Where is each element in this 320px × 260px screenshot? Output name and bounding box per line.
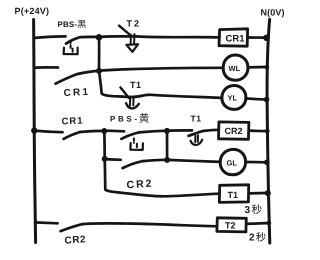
wire coil CR1 to rail N [248, 36, 267, 39]
relay contact CR1 NO blade rung4 [64, 132, 80, 139]
svg-text:WL: WL [229, 64, 241, 73]
relay contact CR2 NO blade rung7 [61, 224, 83, 231]
timer T1 NO contact blade [189, 131, 203, 136]
wire T2 contact to coil CR1 [136, 36, 220, 37]
timer T2 delay arrow [130, 35, 132, 45]
relay coil CR2 [219, 122, 249, 139]
svg-text:PBS-: PBS- [58, 20, 78, 29]
lamp GL [220, 149, 245, 174]
svg-text:CR2: CR2 [225, 126, 243, 136]
svg-text:T2: T2 [225, 221, 236, 231]
svg-text:N(0V): N(0V) [261, 8, 285, 18]
svg-text:CR1: CR1 [61, 115, 83, 127]
svg-text:CR1: CR1 [226, 34, 246, 45]
relay contact CR1 NO blade (seal-in) [56, 74, 78, 84]
wire PBS-yellow to node D [139, 131, 167, 133]
junction node B [96, 68, 102, 74]
timer T1 delay arrow [129, 98, 131, 106]
pushbutton PBS-yellow NO contact blade [121, 132, 139, 139]
svg-text:3: 3 [245, 205, 251, 216]
wire rung7 rail to CR2 contact [35, 221, 58, 225]
timer coil T2 [217, 218, 246, 232]
junction rail N rung7 [266, 221, 271, 226]
wire CR1 contact to node B [78, 71, 99, 74]
wire CR2 contact to coil T2 [83, 223, 217, 226]
wire coil T2 to rail N [246, 222, 269, 226]
junction rail N rung6 [265, 190, 271, 196]
wire node B to lamp WL [99, 68, 223, 71]
wire node F to lamp GL [167, 160, 220, 162]
wire node E to CR2 contact [105, 158, 121, 161]
wire left power rail P [34, 20, 36, 243]
wire CR2 contact to node F [143, 160, 167, 161]
svg-text:CR1: CR1 [63, 87, 88, 99]
wire node A to T2 contact [99, 35, 136, 38]
wire under slash [121, 95, 131, 98]
wire vertical node B down to rung3 [99, 71, 102, 93]
relay coil CR1 [219, 29, 248, 46]
pushbutton PBS-yellow actuator [133, 138, 135, 143]
junction node E [102, 156, 108, 162]
wire vertical node A to node B [98, 37, 101, 71]
junction rail P rung4 [31, 127, 37, 133]
wire rung4 rail to CR1 contact [34, 131, 62, 133]
wire T1 contact to coil CR2 [203, 130, 219, 131]
wire coil T1 to rail N [249, 192, 268, 195]
lamp YL [222, 85, 246, 109]
svg-text:GL: GL [227, 158, 238, 167]
wire rung2 rail to CR1 contact [34, 66, 58, 69]
wire lamp YL to rail N [246, 98, 267, 99]
pushbutton PBS-black NO contact blade [66, 37, 80, 43]
svg-text:CR2: CR2 [64, 234, 86, 246]
svg-text:T1: T1 [228, 190, 239, 200]
junction rail N rung1 [263, 35, 269, 41]
wire rung1 rail to PBS contact [34, 36, 66, 38]
wire lamp GL to rail N [246, 161, 267, 164]
wire CR1 contact to node C [80, 131, 104, 132]
junction rail N rung5 [264, 160, 270, 166]
timer T1 NC contact slash [120, 87, 128, 98]
junction rail N rung3 [264, 97, 270, 103]
wire T1 contact to lamp YL [131, 95, 222, 98]
lamp WL [223, 55, 248, 80]
junction node F [164, 157, 170, 163]
wire vertical node C to node E [103, 131, 106, 159]
timer coil T1 [219, 185, 248, 203]
wire node C to PBS-yellow contact [104, 129, 124, 132]
timer T2 NC contact slash [119, 26, 131, 36]
wire coil CR2 to rail N [249, 129, 267, 132]
wire vertical node E down to rung6 corner [103, 159, 106, 190]
svg-text:YL: YL [228, 94, 238, 103]
svg-text:CR2: CR2 [126, 178, 152, 192]
wire rung3 corner to T1 contact [102, 93, 121, 96]
timer T1 on-delay symbol [194, 136, 196, 143]
wire node D to T1 contact [167, 129, 192, 132]
junction node D [164, 128, 170, 134]
svg-text:T1: T1 [130, 80, 141, 90]
junction rail N rung2 [264, 65, 269, 70]
wire lamp WL to rail N [248, 66, 267, 69]
wire PBS contact to node A [80, 35, 99, 38]
svg-text:2: 2 [249, 232, 255, 243]
svg-text:PBS-: PBS- [110, 115, 137, 124]
relay contact CR2 NO blade (seal-in) [123, 161, 143, 168]
pushbutton PBS-black actuator [70, 41, 72, 49]
wire vertical node D to node F [166, 131, 169, 160]
junction node C [101, 128, 107, 134]
junction rail N rung4 [265, 129, 270, 134]
svg-text:T2: T2 [127, 19, 140, 29]
wire right power rail N [267, 20, 270, 244]
svg-text:P(+24V): P(+24V) [15, 6, 50, 16]
junction node A [96, 34, 103, 41]
wire rung6 corner to coil T1 [105, 189, 219, 196]
svg-text:T1: T1 [191, 114, 202, 124]
